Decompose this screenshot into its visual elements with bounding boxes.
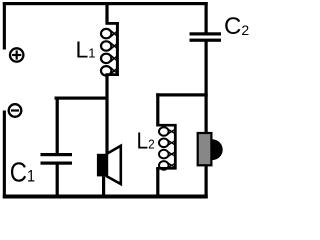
- wire: right vertical from top wire down to C2 top plate: [205, 2, 208, 34]
- wire: L1 branch vertical stub from top bus down to coil: [105, 2, 108, 22]
- terminal + (positive input): [10, 48, 23, 61]
- wire: L2 branch vertical from coil bottom to bottom bus: [156, 168, 159, 197]
- wire: vertical from L1 bottom down to woofer: [105, 75, 108, 155]
- terminal - (negative input): [9, 104, 22, 117]
- capacitor C2 (series, high-pass): [190, 32, 222, 42]
- wire: mid-right horizontal from L2 branch to right bus: [156, 93, 208, 96]
- speaker woofer (cone driver symbol): [97, 146, 121, 184]
- inductor L2 (shunt coil): [156, 124, 176, 170]
- wire: bottom horizontal return bus: [3, 195, 208, 199]
- wire: mid-left horizontal from C1 branch to L1/woofer junction: [55, 97, 109, 100]
- wire: left vertical from top-left corner down to + terminal: [3, 2, 6, 50]
- wire: right vertical from C2 bottom plate down to bottom-right corner: [205, 42, 208, 199]
- inductor L1 (series coil, low-pass): [101, 22, 119, 76]
- wire: C1 branch vertical from junction down to C1 top plate: [56, 97, 59, 154]
- wire: top horizontal bus from + input to C2 branch: [3, 2, 208, 5]
- wire: C1 branch vertical from bottom plate down to bottom bus: [56, 164, 59, 197]
- wire: left vertical from - terminal down to bottom-left corner: [3, 111, 6, 199]
- capacitor C1 (shunt): [41, 153, 73, 165]
- wire: vertical from woofer bottom to bottom bus: [102, 176, 105, 196]
- wire: L2 branch vertical stub from mid-right wire down to coil: [156, 93, 159, 124]
- speaker tweeter (dome driver symbol): [198, 133, 223, 165]
